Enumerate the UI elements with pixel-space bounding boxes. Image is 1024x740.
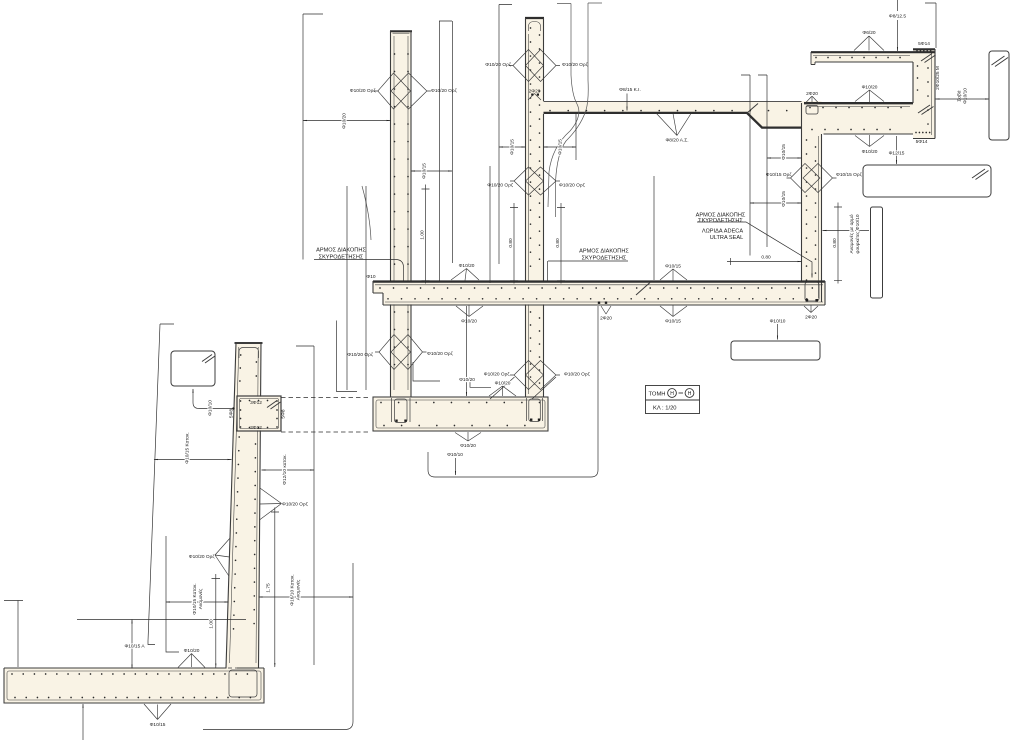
svg-text:Φ10/15 Ορζ: Φ10/15 Ορζ [766,172,793,178]
svg-text:0.80: 0.80 [555,238,561,248]
svg-text:Φ10/10: Φ10/10 [963,88,969,104]
svg-text:Φ10/20: Φ10/20 [495,381,511,387]
svg-text:Φ16/10 Κατακ.: Φ16/10 Κατακ. [290,574,296,605]
svg-text:ΛΩΡΙΔΑ ADECA: ΛΩΡΙΔΑ ADECA [702,229,743,235]
svg-text:Φ10/20: Φ10/20 [862,85,878,91]
svg-text:Φ10/15: Φ10/15 [665,319,681,325]
svg-text:Φ10/15: Φ10/15 [781,144,787,160]
svg-text:Φ10/20 Ορζ: Φ10/20 Ορζ [282,502,309,508]
svg-text:Φ8/12.5: Φ8/12.5 [889,14,906,20]
svg-text:φουρκέτες Φ10/10: φουρκέτες Φ10/10 [854,214,861,254]
svg-text:0.80: 0.80 [761,255,771,261]
svg-text:0.80: 0.80 [508,238,514,248]
svg-text:Φ10/20 Ορζ: Φ10/20 Ορζ [347,352,374,358]
svg-text:Φ10/15 Ορζ: Φ10/15 Ορζ [836,172,863,178]
svg-text:ΑΡΜΟΣ ΔΙΑΚΟΠΗΣ: ΑΡΜΟΣ ΔΙΑΚΟΠΗΣ [579,249,629,255]
svg-text:Φ10/20: Φ10/20 [459,377,475,383]
svg-text:Φ10/20 Ορζ: Φ10/20 Ορζ [559,183,586,189]
svg-text:Αναμονές: Αναμονές [295,579,302,600]
svg-text:Φ10/10: Φ10/10 [208,400,214,416]
svg-text:1.75: 1.75 [266,583,272,593]
svg-text:Η: Η [688,391,692,397]
svg-text:Φ10/20 Ορζ: Φ10/20 Ορζ [427,351,454,357]
svg-text:2Φ20: 2Φ20 [600,316,612,322]
svg-text:Σοβά: Σοβά [956,90,963,101]
svg-text:Φ10/15 Κατακ.: Φ10/15 Κατακ. [185,432,191,463]
svg-text:Φ10/20: Φ10/20 [461,319,477,325]
svg-text:5Φ8: 5Φ8 [281,409,287,418]
svg-text:Φ12/10 κατακ.: Φ12/10 κατακ. [282,454,288,485]
svg-text:Αναμονές με αρμό: Αναμονές με αρμό [848,214,855,253]
svg-text:ΣΚΥΡΟΔΕΤΗΣΗΣ: ΣΚΥΡΟΔΕΤΗΣΗΣ [319,254,364,260]
svg-text:ΣΚΥΡΟΔΕΤΗΣΗΣ: ΣΚΥΡΟΔΕΤΗΣΗΣ [698,218,743,224]
svg-text:Φ10/20: Φ10/20 [862,149,878,155]
svg-text:Φ10/10: Φ10/10 [447,452,463,458]
svg-text:Φ10/15: Φ10/15 [781,191,787,207]
svg-text:Φ10/20 Ορζ: Φ10/20 Ορζ [350,88,377,94]
svg-text:Η: Η [670,391,674,397]
svg-text:Φ10/15: Φ10/15 [665,264,681,270]
svg-text:Φ10/15: Φ10/15 [510,139,516,155]
svg-text:Φ10/20 Ορζ: Φ10/20 Ορζ [431,88,458,94]
svg-text:Φ10/15: Φ10/15 [558,139,564,155]
svg-text:Φ10/20: Φ10/20 [184,648,200,654]
svg-text:1.00: 1.00 [209,619,215,629]
svg-text:Φ10/15: Φ10/15 [150,722,166,728]
svg-text:Φ10/20 Ορζ: Φ10/20 Ορζ [484,372,511,378]
svg-text:Φ10/20 Ορζ: Φ10/20 Ορζ [487,183,514,189]
svg-text:Φ10/20 Ορζ: Φ10/20 Ορζ [485,62,512,68]
svg-text:Φ10/10: Φ10/10 [770,319,786,325]
svg-text:5Φ14: 5Φ14 [918,41,930,47]
svg-text:0.80: 0.80 [832,238,838,248]
svg-text:ΤΟΜΗ: ΤΟΜΗ [649,392,666,398]
svg-text:3Φ12: 3Φ12 [250,400,262,406]
svg-text:Φ10/20 Ορζ: Φ10/20 Ορζ [564,372,591,378]
svg-text:1.00: 1.00 [420,230,426,240]
svg-text:Φ12/15: Φ12/15 [889,151,905,157]
svg-text:ULTRA SEAL: ULTRA SEAL [710,235,743,241]
svg-text:Φ10/15 Κατακ.: Φ10/15 Κατακ. [192,583,198,614]
svg-text:Φ10/15: Φ10/15 [422,163,428,179]
svg-text:ΣΚΥΡΟΔΕΤΗΣΗΣ: ΣΚΥΡΟΔΕΤΗΣΗΣ [582,255,627,261]
svg-text:Φ10/15 Α: Φ10/15 Α [124,644,145,650]
svg-text:ΚΛ : 1/20: ΚΛ : 1/20 [653,406,677,412]
svg-text:ΑΡΜΟΣ ΔΙΑΚΟΠΗΣ: ΑΡΜΟΣ ΔΙΑΚΟΠΗΣ [316,248,366,254]
svg-text:Φ10/20: Φ10/20 [460,443,476,449]
svg-text:Φ10/20 Ορζ: Φ10/20 Ορζ [189,554,216,560]
svg-text:3Φ12: 3Φ12 [250,425,262,431]
svg-text:Φ10/20: Φ10/20 [342,113,348,129]
svg-text:2Φ20: 2Φ20 [529,89,541,95]
svg-text:5Φ14: 5Φ14 [916,139,928,145]
svg-text:Φ10/20: Φ10/20 [459,263,475,269]
svg-text:Φ10/20 Ορζ: Φ10/20 Ορζ [562,62,589,68]
svg-text:Φ8/15 Κ.Ι.: Φ8/15 Κ.Ι. [619,87,641,93]
svg-text:Φ8/20 Α.Σ.: Φ8/20 Α.Σ. [665,138,688,144]
svg-text:2Φ20: 2Φ20 [805,315,817,321]
svg-text:Φ10: Φ10 [366,274,375,280]
svg-text:Φ6/20: Φ6/20 [862,30,875,36]
svg-text:5Φ8: 5Φ8 [229,409,235,418]
svg-text:2Φ10/25 Μ: 2Φ10/25 Μ [935,66,941,90]
svg-text:2Φ20: 2Φ20 [806,91,818,97]
svg-text:Αναμονές: Αναμονές [197,588,204,609]
